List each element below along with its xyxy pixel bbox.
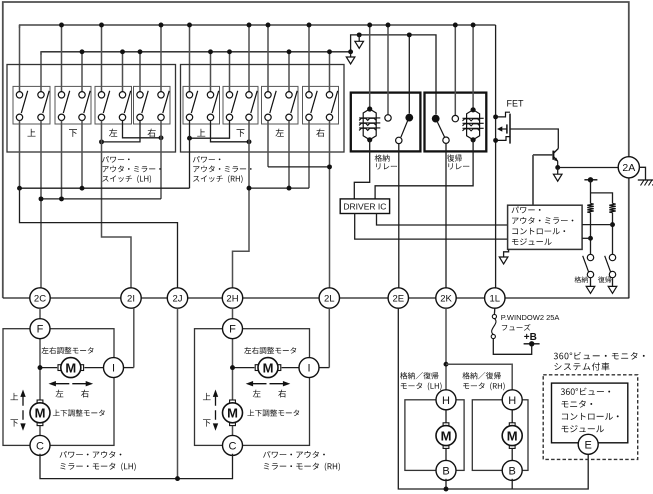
wire v1 lower [588,213,593,255]
arrow off-page A3 [553,168,562,182]
wire D [268,164,332,169]
svg-text:M: M [263,360,274,375]
wire motor common bottom [40,308,233,481]
connector E [578,434,598,454]
svg-text:M: M [441,428,452,443]
power outer mirror switch LH box [7,65,176,153]
power terminal +B [524,332,540,346]
node bus junction 12 [266,23,271,28]
wire switch feed 9 [210,52,212,92]
node bus junction coil2 [471,23,476,28]
wire FET drain out [510,129,558,149]
node bus junction fix1 [386,23,391,28]
wire LH internal link2 [99,121,140,145]
wire drop col1 to 2C [40,121,42,288]
label power outer mirror switch LH [102,156,161,183]
arrow off-page A5 [586,278,595,294]
wire relay feed [351,35,436,115]
wire drop col11 to 2H [233,121,250,288]
svg-text:C: C [229,440,237,452]
label control module [512,206,574,245]
wire 2K down [444,308,449,391]
svg-text:2J: 2J [172,293,182,304]
svg-text:DRIVER IC: DRIVER IC [343,201,386,211]
transistor FET [493,99,524,144]
stow/return motor RH [462,372,528,480]
wire base [533,154,552,156]
wire E [247,186,309,191]
power outer mirror motor LH [3,308,136,471]
relay kakunou box [351,93,421,152]
wire fukki sw to 2K [445,143,447,287]
switch cell 下LH [55,86,91,137]
wire v2 lower [610,213,615,255]
wire B LH drop [444,479,449,492]
driver IC box [340,199,389,214]
node bus junction 7 [159,23,164,28]
wire drop col4 to 2I [102,121,132,288]
wire ground loop right lower [628,178,630,298]
wire drop col7 [160,121,162,199]
svg-text:2K: 2K [440,293,452,304]
wire drop col8 [189,121,191,189]
node bus junction 4 [99,23,104,28]
360 view monitor system box [543,375,638,460]
svg-text:C: C [36,440,44,452]
node bus2 end junction [348,49,353,54]
wire module to R1 [582,237,590,239]
stow/return motor LH [400,372,464,480]
node bus junction 3 [80,49,85,54]
svg-text:2L: 2L [324,293,335,304]
wire drop col15 to 2L [329,121,331,288]
relay kakunou fixed contact [385,25,391,121]
wire switch feed 7 [160,25,162,92]
svg-text:H: H [442,395,450,407]
wire branch to RH motor [446,364,512,391]
connector 2L [319,288,339,308]
svg-text:+B: +B [524,332,537,343]
connector 2E [388,288,408,308]
wire driver out2 [377,214,508,226]
node bus junction 6 [138,49,143,54]
wire driver out1 [355,214,508,240]
svg-text:M: M [227,405,238,420]
arrow off-page A6 [608,278,617,294]
switch cell 下RH [223,86,258,137]
svg-text:I: I [112,363,115,375]
wire switch feed 6 [139,52,141,92]
label 360 module [561,388,619,433]
switch cell 左RH [262,86,299,136]
switch fukki SW [605,254,616,277]
wire fukki coil to driver [375,140,473,199]
relay kakunou moving contact [396,32,414,143]
wire switch feed 3 [81,52,83,92]
wire switch feed 4 [101,25,103,92]
wire C to 2J [20,188,178,288]
arrow module A4 [499,249,508,264]
relay fukki box [425,93,487,152]
relay fukki coil [463,25,484,142]
wire switch feed 14 [308,25,310,92]
svg-text:B: B [509,465,516,477]
svg-text:2E: 2E [392,293,404,304]
wire drop col13 [288,121,290,189]
relay fukki moving contact [432,115,449,144]
wire switch feed 8 [189,25,191,92]
node bus junction 9 [208,49,213,54]
node bus junction 11 [247,23,252,28]
wire switch feed 2 [61,25,63,92]
relay fukki fixed contact [452,25,458,122]
power terminal bar right [584,177,597,182]
wire ground loop top/left [3,2,629,298]
arrow off-page A1 [346,54,355,64]
svg-text:2H: 2H [226,293,238,304]
node bus junction 15 [327,49,332,54]
wire kakunou coil to driver [354,140,369,199]
ground [638,167,653,185]
wire switch feed 11 [248,25,250,92]
fuse P.WINDOW2 25A [491,308,532,354]
svg-text:I: I [307,363,310,375]
power outer mirror control module box [508,205,582,249]
node bus junction 10 [227,49,232,54]
power outer mirror motor RH [195,308,340,471]
label fukki sw [598,276,611,282]
svg-text:F: F [37,324,44,336]
transistor Q1 [553,149,558,168]
wire base drop [532,155,534,205]
node bus junction 8 [187,23,192,28]
svg-text:F: F [229,324,236,336]
wire switch feed 12 [267,25,269,92]
svg-text:M: M [65,360,76,375]
label kakunou sw [574,276,587,282]
arrow off-page A2 [355,32,364,48]
wire RH internal link2 [211,121,252,145]
wire B [39,196,161,201]
wire connector row [3,297,630,299]
switch cell 右LH [134,86,171,137]
connector 2K [436,288,456,308]
relay kakunou coil [359,25,380,142]
wire drop col12 [267,121,269,167]
wire bus1 to FET to 1L [495,25,497,288]
svg-text:1L: 1L [490,293,501,304]
connector 2J [167,288,187,308]
connector 2A [618,157,639,178]
svg-text:M: M [507,428,518,443]
label power outer mirror switch RH [193,156,252,183]
label kakunou relay [375,154,397,169]
node emitter junction [555,165,560,170]
wire v2 branch [591,193,613,204]
wire switch feed 10 [229,52,231,92]
connector 2H [222,288,242,308]
wire RH internal link1 [187,121,229,141]
wire bus2 [41,52,351,55]
wire drop col2 [61,121,63,199]
svg-text:2I: 2I [127,293,135,304]
360 view monitor control module box [552,383,628,443]
wire drop col0 [19,121,21,189]
connector 2C [30,288,50,308]
node bus junction 14 [307,23,312,28]
connector 2I [121,288,141,308]
resistor R1 [587,204,593,213]
svg-text:2C: 2C [34,293,46,304]
svg-text:B: B [442,465,449,477]
node bus junction fix2 [453,23,458,28]
power outer mirror switch RH box [181,65,345,153]
wire B RH drop [511,479,513,489]
svg-text:P.WINDOW2 25A: P.WINDOW2 25A [501,313,560,322]
wire kakunou sw to 2E [398,144,400,288]
switch kakunou SW [583,254,594,277]
wire switch feed 15 [329,52,331,92]
wire switch feed 13 [288,52,290,92]
svg-text:M: M [35,405,46,420]
label 360 system [554,352,645,371]
wire switch feed 1 [40,52,42,92]
wire LH internal link1 [123,121,164,141]
connector 1L [485,288,505,308]
wire drop col3 [81,121,83,189]
wire A [17,186,189,191]
svg-text:2A: 2A [622,162,635,174]
wire 2E down bottom [398,308,588,489]
wire drop col14 [308,121,310,189]
node bus junction 5 [120,49,125,54]
wire switch feed 0 [19,25,21,92]
label fuse [501,313,560,331]
switch cell 上LH [13,86,50,136]
switch cell 上RH [183,86,220,136]
svg-text:FET: FET [507,99,525,109]
wire bus1 [20,25,496,28]
switch cell 左LH [95,86,132,136]
wire module to R2 [582,224,612,226]
resistor R2 [609,204,615,213]
switch cell 右RH [303,86,339,137]
wire emitter to 2A [558,167,618,169]
node bus junction 13 [287,49,292,54]
wire v1 upper [590,180,592,204]
svg-text:H: H [508,395,516,407]
wire switch feed 5 [122,52,124,92]
svg-text:E: E [585,439,592,451]
node bus junction 2 [59,23,64,28]
label fukki relay [447,154,469,169]
node bus junction coil1 [367,23,372,28]
